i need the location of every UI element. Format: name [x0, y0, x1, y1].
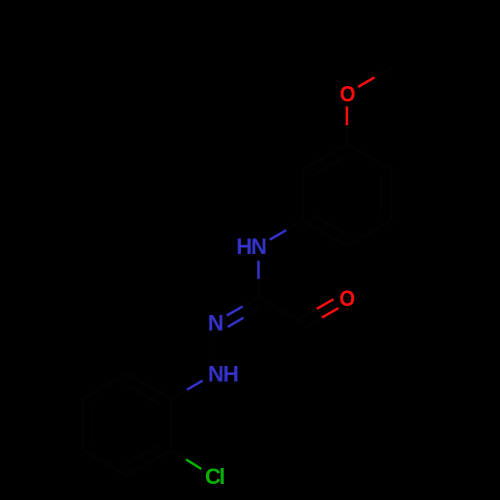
bond N(H)-ring1	[270, 221, 303, 240]
ring1 edge C4-C5	[347, 221, 391, 247]
double bond C3=O (carbonyl)	[300, 299, 338, 327]
svg-text:N: N	[208, 361, 224, 386]
ring2 inner line (top-right edge)	[128, 386, 160, 404]
svg-text:H: H	[236, 234, 252, 259]
svg-text:O: O	[340, 83, 356, 107]
svg-text:N: N	[251, 234, 267, 259]
ring1 inner line (top-left edge)	[314, 156, 346, 174]
bond N(H)-C2 (vertical)	[257, 261, 260, 298]
atom label NH (hydrazine NH)	[208, 361, 239, 386]
svg-text:l: l	[219, 464, 225, 489]
bond O-C(ring1 top)	[346, 106, 349, 144]
ring1 edge C2-C3 (left)	[301, 170, 304, 221]
svg-text:O: O	[339, 287, 355, 311]
ring1 edge C1-C2 (double)	[303, 144, 347, 170]
ring2 edge C5-C6 (double)	[127, 450, 171, 476]
ring2 edge C2-C3	[83, 373, 127, 399]
bond N-N (drawn near-invisible as in target)	[214, 335, 217, 360]
ring1 edge C3-C4 (double)	[303, 221, 347, 247]
svg-text:N: N	[208, 310, 224, 335]
ring2 inner line (bottom-right edge)	[128, 445, 160, 463]
bond O-CH3 (methoxy methyl)	[358, 68, 391, 87]
ring2 edge C4-C5	[83, 450, 127, 476]
bond ring2-Cl	[171, 450, 201, 469]
ring2 inner line (left edge)	[91, 406, 94, 443]
svg-text:H: H	[223, 361, 239, 386]
double bond C2=N (imine)	[227, 297, 259, 327]
atom label HN (anilino NH)	[236, 234, 267, 259]
ring2 edge C6-C1 (right)	[170, 399, 173, 450]
bond C2-C3	[259, 297, 303, 323]
ring1 edge C5-C6 (double, right)	[390, 170, 393, 221]
ring1 edge C6-C1	[347, 144, 391, 170]
bond N(H)-ring2	[171, 381, 203, 399]
ring1 inner line (right edge)	[380, 177, 383, 214]
ring1 inner line (bottom-left edge)	[314, 216, 346, 234]
ring2 edge C3-C4 (double, left)	[81, 399, 84, 450]
ring2 edge C1-C2 (double)	[127, 373, 171, 399]
atom label Cl	[205, 464, 225, 489]
